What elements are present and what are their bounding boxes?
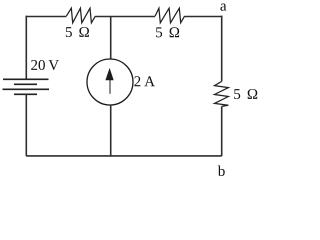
wire bottom horizontal — [26, 155, 222, 157]
label 5 Ω for R3 — [234, 89, 257, 99]
node b label — [218, 165, 225, 176]
label 5 Ω for R2 — [156, 27, 179, 37]
wire top-right horizontal — [185, 16, 222, 18]
wire middle upper vertical — [110, 17, 112, 60]
resistor R3 5Ω (right vertical zigzag) — [215, 81, 229, 106]
wire middle lower vertical — [110, 105, 112, 156]
node a label — [220, 4, 226, 11]
wire top-middle horizontal — [95, 16, 155, 18]
label 5 Ω for R1 — [66, 27, 89, 37]
label 2 A — [134, 76, 155, 86]
wire right lower vertical — [221, 106, 223, 156]
wire top-left horizontal — [26, 16, 66, 18]
battery V1 20V (four plates) — [3, 79, 50, 94]
current source arrow shaft — [109, 80, 111, 94]
wire right upper vertical — [221, 16, 223, 82]
current source I1 (circle) — [87, 59, 133, 105]
label 20 V — [31, 60, 59, 70]
wire left upper vertical — [25, 16, 27, 80]
wire left lower vertical — [25, 94, 27, 156]
current source arrowhead — [105, 68, 113, 80]
resistor R2 5Ω (top right zigzag) — [155, 8, 185, 23]
resistor R1 5Ω (top left zigzag) — [66, 8, 95, 23]
